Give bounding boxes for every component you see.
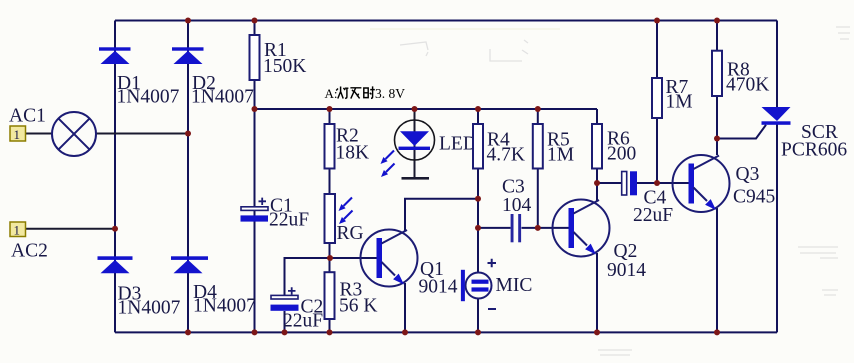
svg-text:1N4007: 1N4007 xyxy=(118,297,181,318)
RG light arrow 2 xyxy=(339,211,353,225)
label MIC plus xyxy=(488,259,497,268)
diode D3 1N4007 xyxy=(98,256,133,273)
svg-text:22uF: 22uF xyxy=(633,205,673,226)
resistor R6 xyxy=(592,124,602,169)
wire: AC1 to lamp xyxy=(26,133,53,135)
wire: R2/RG/R3 column xyxy=(329,109,331,332)
wire: C2 branch to base node xyxy=(285,258,330,332)
wire: AC2 to bridge node xyxy=(26,228,115,230)
svg-text:1: 1 xyxy=(14,127,21,142)
RG light arrow 1 xyxy=(339,198,353,212)
terminal AC2 pin 1 xyxy=(10,222,26,237)
svg-text:1M: 1M xyxy=(547,145,574,166)
wire: lamp to bridge node xyxy=(96,133,188,135)
svg-text:22uF: 22uF xyxy=(283,311,323,332)
LED indicator xyxy=(395,120,435,180)
wire: SCR gate wire xyxy=(717,125,766,139)
junction dot lamp to bridge xyxy=(185,131,191,137)
svg-text:1N4007: 1N4007 xyxy=(191,86,254,107)
junction dot AC2 to bridge xyxy=(112,226,118,232)
capacitor C4 22uF polarized xyxy=(622,171,637,195)
junction dot C3 left / MIC xyxy=(475,225,481,231)
svg-text:Q2: Q2 xyxy=(614,241,638,262)
junction dots top rail xyxy=(185,18,720,24)
diode D4 1N4007 xyxy=(171,256,208,273)
wire: C3 right lead to Q2 base xyxy=(522,227,569,229)
resistor R1 xyxy=(250,35,260,80)
wire: Q3 emitter lead to ground rail xyxy=(716,208,718,332)
wire: top positive rail xyxy=(115,20,777,22)
photoresistor RG xyxy=(325,194,336,243)
svg-text:56 K: 56 K xyxy=(339,296,377,317)
wire: Q3 collector lead xyxy=(716,139,718,156)
svg-text:470K: 470K xyxy=(726,75,769,96)
transistor Q2 9014 xyxy=(553,200,610,257)
svg-text:A:: A: xyxy=(325,86,338,101)
label MIC minus xyxy=(488,308,496,310)
wire: R7 column xyxy=(656,21,658,184)
svg-text:Q3: Q3 xyxy=(736,164,760,185)
svg-text:1N4007: 1N4007 xyxy=(117,86,180,107)
svg-text:C945: C945 xyxy=(733,187,775,208)
svg-text:3. 8V: 3. 8V xyxy=(375,86,405,101)
wire: D2/D4 column xyxy=(187,21,189,333)
svg-text:104: 104 xyxy=(502,195,532,216)
capacitor C2 22uF polarized xyxy=(271,287,299,311)
svg-text:LED: LED xyxy=(439,134,477,155)
junction dots bottom rail xyxy=(185,329,720,335)
svg-text:RG: RG xyxy=(337,223,364,244)
resistor R4 xyxy=(473,124,483,169)
svg-text:PCR606: PCR606 xyxy=(781,140,847,161)
resistor R5 xyxy=(533,124,543,169)
wire: R1/C1 column xyxy=(254,21,256,333)
svg-text:18K: 18K xyxy=(336,143,370,164)
wire: C3 left lead xyxy=(478,227,511,229)
svg-text:200: 200 xyxy=(607,144,636,165)
wire: Q1 collector lead and coupling wire to R4 column xyxy=(405,199,478,231)
wire: C4 right lead to Q3 base xyxy=(637,182,689,184)
wire: SCR anode column from top rail xyxy=(776,21,778,108)
capacitor C3 104 xyxy=(511,214,522,242)
wire: LED column from node A xyxy=(414,109,416,178)
microphone MIC xyxy=(461,270,492,301)
wire: Q2 collector lead xyxy=(596,183,598,201)
wire: R6 column from node A to Q2 collector node xyxy=(596,109,598,183)
wire: left bus D1/D3 column xyxy=(114,21,116,333)
LED emission arrow 1 xyxy=(381,151,395,165)
wire: Q1 base wire xyxy=(330,257,377,259)
svg-text:9014: 9014 xyxy=(419,277,458,298)
junction dot Q2 collector / R6 / C4 xyxy=(594,180,600,186)
lamp (incandescent bulb) xyxy=(52,112,96,156)
wire: R4/MIC column xyxy=(477,109,479,332)
svg-text:1M: 1M xyxy=(666,92,693,113)
transistor Q1 9014 xyxy=(361,230,418,287)
transistor Q3 C945 xyxy=(673,155,730,212)
svg-text:4.7K: 4.7K xyxy=(487,145,525,166)
svg-text:1: 1 xyxy=(14,222,21,237)
wire: SCR cathode column to bottom rail xyxy=(776,125,778,333)
junction dot Q1 collector / R4 xyxy=(475,196,481,202)
capacitor C1 22uF polarized xyxy=(241,198,269,222)
SCR PCR606 xyxy=(762,107,791,125)
LED emission arrow 2 xyxy=(381,164,395,178)
junction dot R8 / Q3 collector / SCR gate xyxy=(714,136,720,142)
junction dot C3 right / R5 xyxy=(535,225,541,231)
node A annotation text xyxy=(325,86,406,101)
wire: R8 column and lead to gate node xyxy=(716,21,718,139)
svg-text:22uF: 22uF xyxy=(269,210,309,231)
resistor R8 xyxy=(712,51,722,96)
wire: node A horizontal rail xyxy=(255,108,598,110)
svg-text:150K: 150K xyxy=(263,56,306,77)
svg-text:AC2: AC2 xyxy=(11,241,48,262)
junction dot C4 / R7 / Q3 base xyxy=(654,180,660,186)
resistor R3 xyxy=(325,272,335,319)
svg-text:AC1: AC1 xyxy=(9,106,46,127)
svg-text:9014: 9014 xyxy=(607,260,646,281)
diode D1 1N4007 xyxy=(99,47,131,64)
diode D2 1N4007 xyxy=(172,47,204,64)
wire: Q1 emitter lead to ground rail xyxy=(404,283,406,332)
resistor R2 xyxy=(325,124,335,169)
wire: R5 column xyxy=(537,109,539,228)
resistor R7 xyxy=(652,78,662,118)
junction dot Q1 base node xyxy=(327,255,333,261)
junction dots node A rail xyxy=(252,106,541,112)
wire: Q2 emitter lead to ground rail xyxy=(596,253,598,332)
terminal AC1 pin 1 xyxy=(10,126,26,142)
wire: bottom negative rail xyxy=(115,331,777,333)
svg-text:1N4007: 1N4007 xyxy=(193,296,256,317)
svg-text:MIC: MIC xyxy=(496,275,533,296)
wire: C4 left lead xyxy=(597,182,622,184)
